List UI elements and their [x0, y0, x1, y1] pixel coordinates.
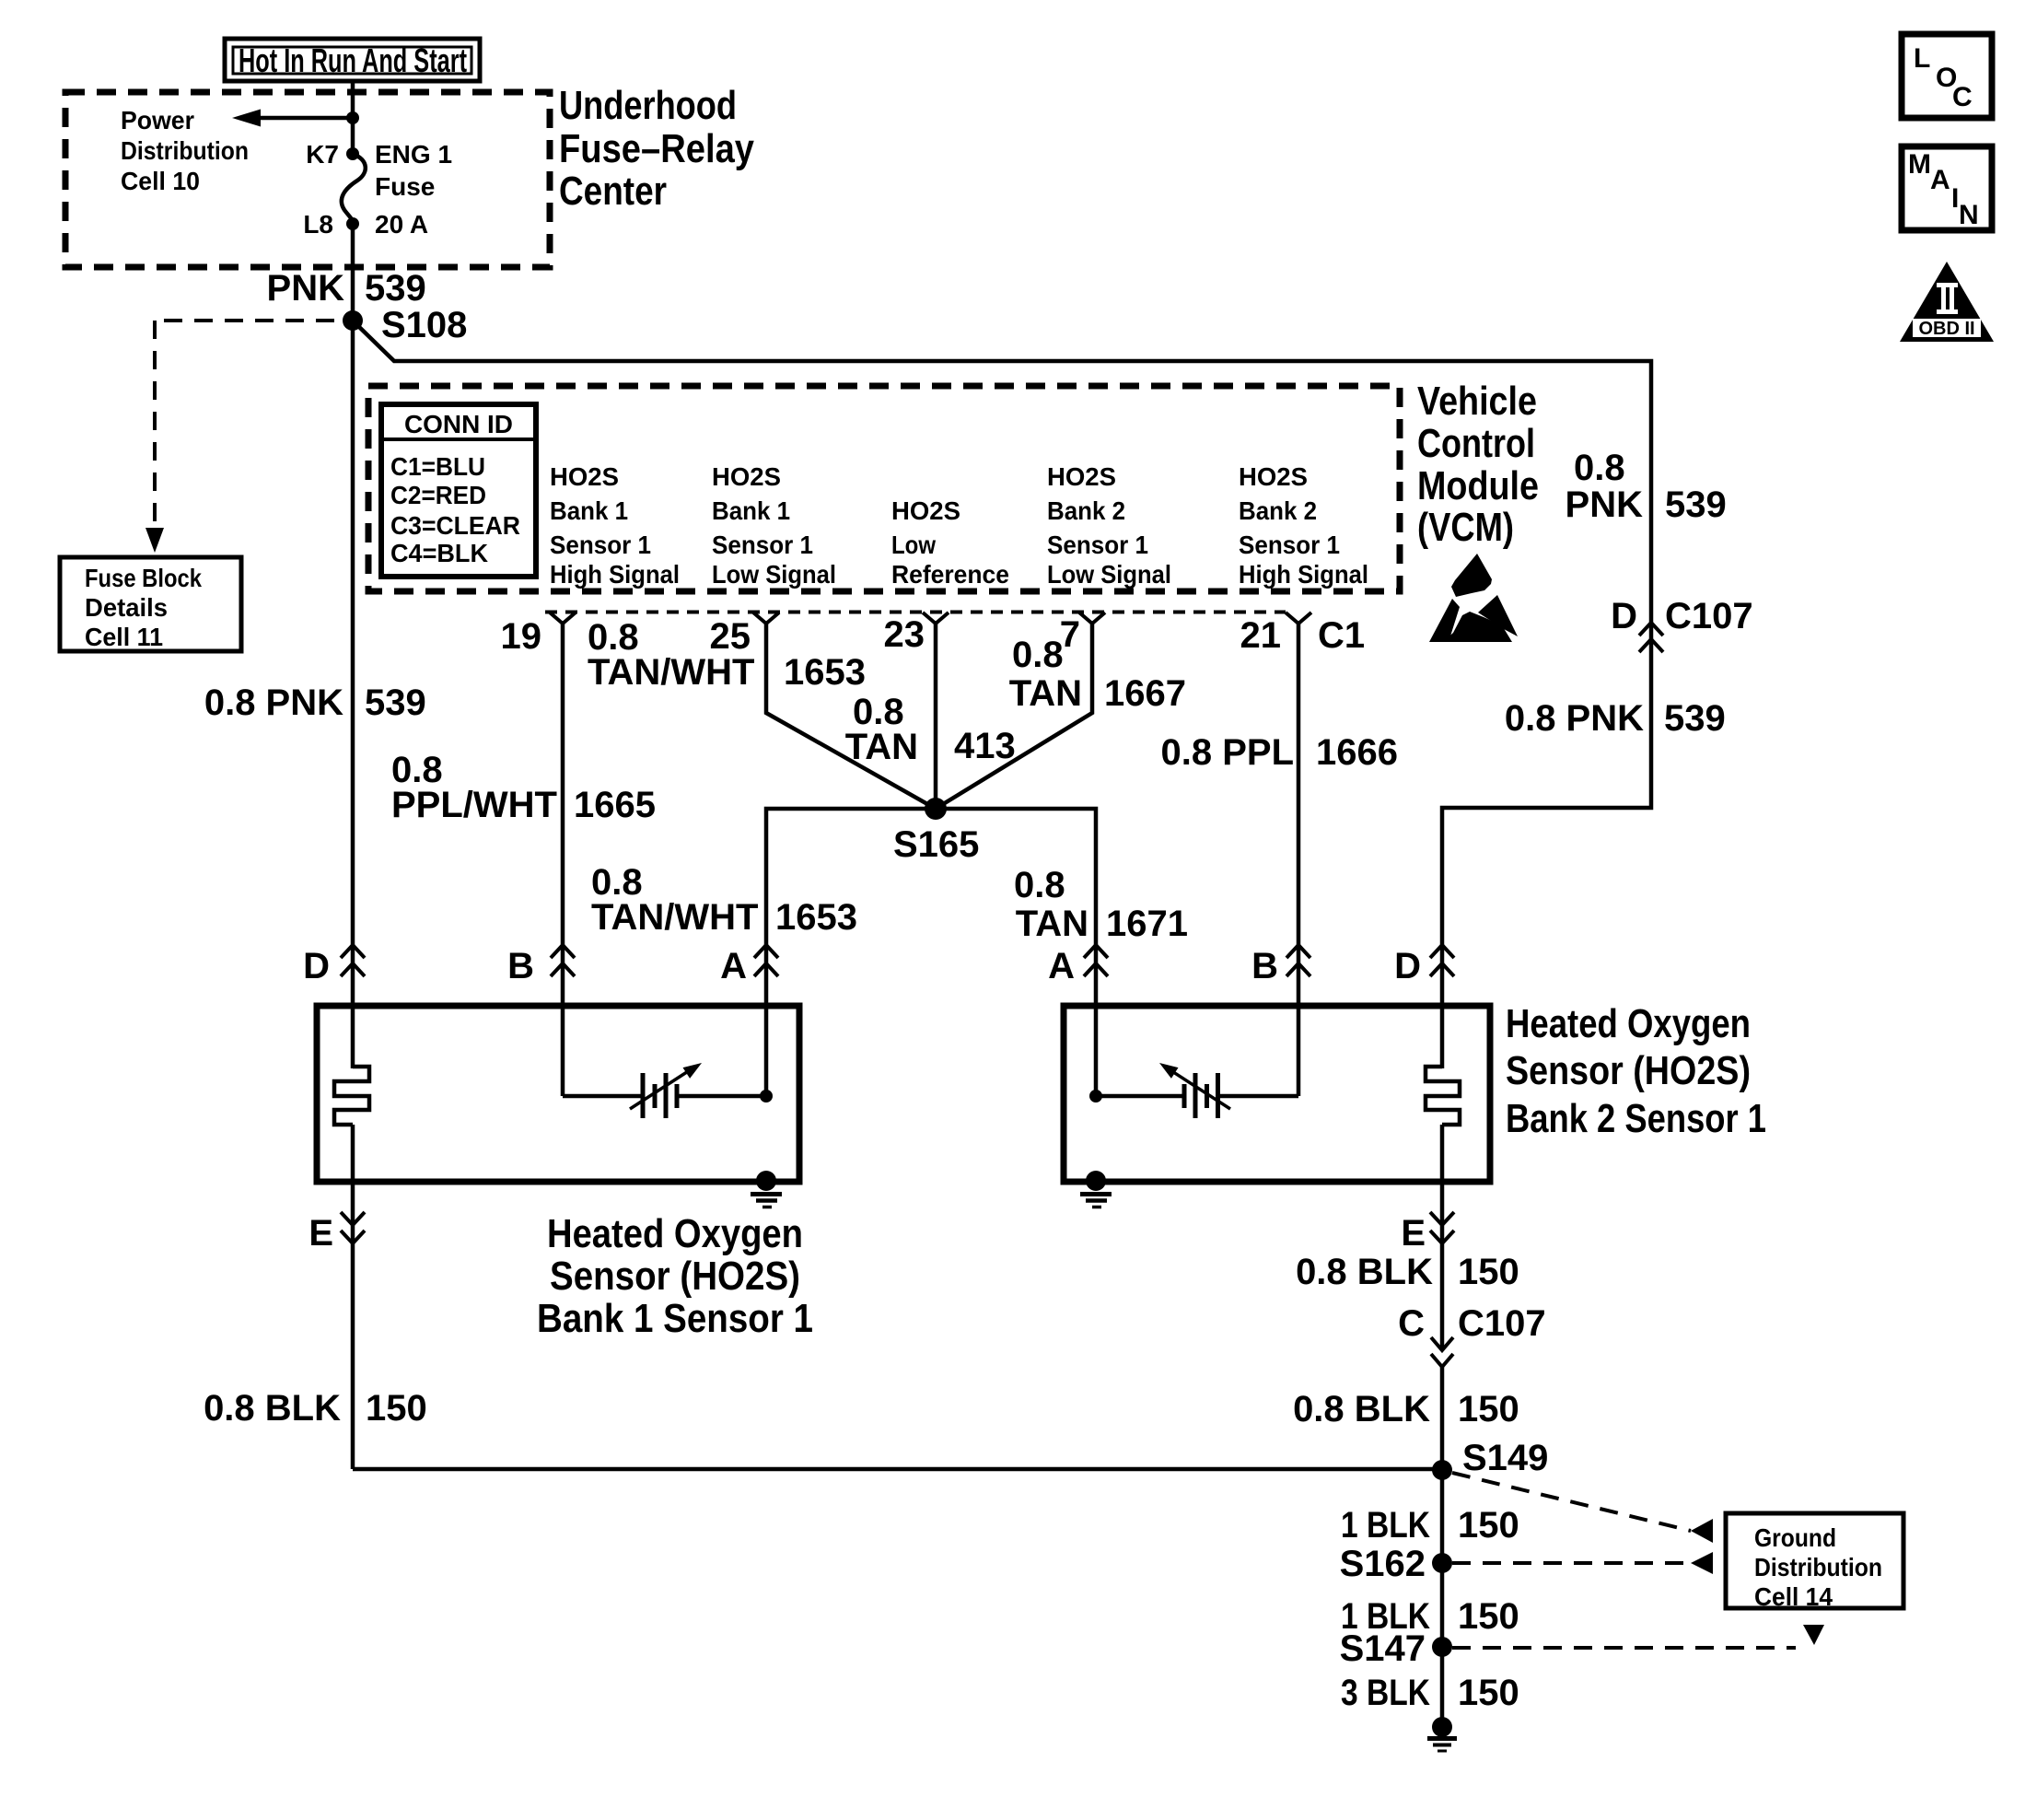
node: splice S149: [1432, 1460, 1452, 1480]
svg-text:Ground: Ground: [1754, 1523, 1836, 1552]
svg-text:1 BLK: 1 BLK: [1341, 1505, 1430, 1546]
svg-text:Distribution: Distribution: [1754, 1553, 1882, 1581]
label: HO2S Bank 1 Sensor 1 High Signal (pin 19 column): [550, 462, 680, 589]
connector chevrons pin A (right sensor): [1048, 945, 1108, 986]
label: Heated Oxygen Sensor (HO2S) Bank 2 Sensor 1: [1506, 1001, 1766, 1141]
label: Heated Oxygen Sensor (HO2S) Bank 1 Sensor 1: [537, 1211, 813, 1341]
svg-text:Sensor 1: Sensor 1: [550, 531, 651, 559]
svg-text:C2=RED: C2=RED: [390, 481, 486, 509]
connector chevrons pin A (left sensor): [720, 945, 778, 986]
svg-text:Low Signal: Low Signal: [1047, 560, 1171, 589]
label: Underhood Fuse-Relay Center: [559, 83, 754, 214]
label: Vehicle Control Module (VCM): [1417, 379, 1539, 550]
svg-text:0.8 PNK: 0.8 PNK: [204, 682, 343, 723]
node: splice S147: [1432, 1637, 1452, 1657]
svg-text:19: 19: [501, 616, 542, 657]
label: 0.8 BLK 150 (right upper): [1296, 1252, 1519, 1292]
svg-text:539: 539: [1664, 698, 1726, 739]
svg-text:HO2S: HO2S: [550, 462, 619, 491]
power source box "Hot In Run And Start": [225, 39, 480, 81]
wire: TAN/WHT 1653 pin 25 to S165: [766, 624, 936, 809]
svg-text:Heated Oxygen: Heated Oxygen: [1506, 1001, 1751, 1046]
svg-text:S165: S165: [893, 824, 979, 865]
svg-text:High Signal: High Signal: [550, 560, 680, 589]
ESD sensitivity symbol: [1429, 554, 1518, 642]
svg-text:Sensor 1: Sensor 1: [1047, 531, 1148, 559]
svg-text:E: E: [308, 1213, 333, 1254]
wire: dashed reference S162 to Ground Distribution: [1452, 1552, 1713, 1574]
svg-text:PNK: PNK: [1566, 484, 1644, 525]
heater element (left sensor): [334, 1067, 369, 1125]
label: 1 BLK 150 (upper): [1341, 1505, 1519, 1546]
svg-text:TAN: TAN: [1009, 673, 1082, 714]
svg-text:20 A: 20 A: [375, 210, 428, 239]
svg-text:Bank 2: Bank 2: [1239, 496, 1317, 525]
svg-text:539: 539: [365, 682, 426, 723]
svg-text:B: B: [507, 946, 534, 986]
svg-text:M: M: [1908, 149, 1931, 180]
svg-text:0.8 PPL: 0.8 PPL: [1160, 732, 1294, 773]
ground G: chassis ground at bottom: [1427, 1717, 1457, 1751]
svg-text:3 BLK: 3 BLK: [1341, 1673, 1430, 1713]
svg-text:C1: C1: [1318, 615, 1365, 656]
svg-text:1671: 1671: [1106, 904, 1188, 944]
svg-text:Underhood: Underhood: [559, 83, 737, 128]
connector chevrons pin E (left sensor, down): [308, 1212, 365, 1254]
node: element junction dot (left): [760, 1090, 773, 1102]
connector C107 pin C (inline, down): [1398, 1303, 1546, 1367]
svg-text:HO2S: HO2S: [712, 462, 781, 491]
svg-text:E: E: [1401, 1213, 1426, 1254]
svg-text:1653: 1653: [784, 652, 866, 693]
CONN ID table: [381, 404, 536, 577]
node: splice S108: [343, 310, 363, 331]
label: 0.8 TAN/WHT 1653 (lower): [591, 862, 857, 938]
svg-text:Bank 2 Sensor 1: Bank 2 Sensor 1: [1506, 1096, 1766, 1141]
heater element (right sensor): [1426, 1067, 1460, 1125]
svg-text:150: 150: [1458, 1505, 1519, 1546]
svg-text:S108: S108: [381, 305, 467, 345]
svg-text:Details: Details: [85, 593, 168, 622]
HO2S Bank 2 Sensor 1 box: [1064, 1006, 1490, 1182]
svg-text:0.8 BLK: 0.8 BLK: [1293, 1389, 1430, 1429]
wire: PPL/WHT 1665 pin 19 to sensor B: [561, 624, 565, 1096]
svg-text:Sensor (HO2S): Sensor (HO2S): [1506, 1048, 1751, 1093]
wire: PNK 539 from S108 down to HO2S Bank1 Sensor1 pin D: [351, 321, 355, 1068]
svg-text:D: D: [303, 946, 330, 986]
wire: TAN/WHT 1653 S165 to left sensor A: [766, 809, 936, 1096]
svg-text:Low: Low: [891, 531, 936, 559]
wire: dashed reference from S108 to Fuse Block Details: [145, 321, 334, 553]
svg-text:TAN/WHT: TAN/WHT: [588, 652, 754, 693]
svg-text:1665: 1665: [574, 785, 656, 825]
legend box MAIN: [1902, 146, 1992, 230]
svg-text:A: A: [1930, 165, 1950, 195]
reference box: Fuse Block Details Cell 11: [60, 557, 241, 651]
wire: TAN 1667 pin 7 to S165: [936, 624, 1092, 809]
node: branch junction dot: [346, 111, 359, 124]
wire: PPL 1666 pin 21 to sensor B: [1297, 624, 1301, 1096]
svg-text:413: 413: [954, 726, 1016, 766]
svg-text:S149: S149: [1462, 1438, 1548, 1478]
svg-text:TAN/WHT: TAN/WHT: [591, 897, 758, 938]
svg-text:21: 21: [1240, 615, 1282, 656]
wire: BLK 150 C107 to S149: [1440, 1367, 1445, 1470]
svg-text:Fuse: Fuse: [375, 172, 435, 201]
label: 0.8 PNK 539 (left): [204, 682, 426, 723]
svg-text:K7: K7: [306, 140, 339, 169]
svg-text:Reference: Reference: [891, 560, 1009, 589]
svg-text:C107: C107: [1458, 1303, 1546, 1344]
svg-text:Heated Oxygen: Heated Oxygen: [547, 1211, 803, 1256]
connector fork pin 25: [753, 612, 779, 624]
svg-text:C3=CLEAR: C3=CLEAR: [390, 511, 520, 540]
wire: heater output to E: [351, 1125, 355, 1469]
ground: left sensor internal ground: [751, 1171, 782, 1207]
connector chevrons pin B (left sensor): [507, 945, 575, 986]
connector fork pin 23: [923, 612, 949, 624]
svg-text:ENG 1: ENG 1: [375, 140, 452, 169]
svg-text:150: 150: [1458, 1673, 1519, 1713]
VCM connector dashed line: [545, 611, 1286, 614]
connector fork pin 21 (C1): [1286, 612, 1311, 624]
label: Power Distribution Cell 10: [121, 106, 249, 195]
connector fork pin 19: [550, 612, 576, 624]
svg-text:0.8: 0.8: [1012, 635, 1064, 675]
wire: BLK 150 bottom run from left sensor to S149: [353, 1467, 1442, 1472]
svg-text:0.8 PNK: 0.8 PNK: [1505, 698, 1644, 739]
label: 0.8 PNK 539 (lower right): [1505, 698, 1726, 739]
svg-text:150: 150: [1458, 1389, 1519, 1429]
svg-text:HO2S: HO2S: [1047, 462, 1116, 491]
svg-text:Hot In Run And Start: Hot In Run And Start: [239, 41, 467, 79]
svg-text:Center: Center: [559, 169, 667, 214]
svg-text:(VCM): (VCM): [1417, 505, 1514, 550]
sensing element (right sensor): [1096, 1063, 1298, 1118]
connector fork pin 7: [1079, 612, 1105, 624]
label: 1 BLK 150 (lower): [1341, 1596, 1519, 1637]
connector chevrons pin D (right sensor): [1394, 945, 1454, 986]
svg-text:23: 23: [884, 614, 925, 655]
svg-text:150: 150: [1458, 1252, 1519, 1292]
connector chevrons pin D (left sensor): [303, 945, 365, 986]
svg-text:Vehicle: Vehicle: [1417, 379, 1537, 424]
svg-text:Fuse Block: Fuse Block: [85, 564, 202, 592]
HO2S Bank 1 Sensor 1 box: [317, 1006, 799, 1182]
label: HO2S Bank 2 Sensor 1 Low Signal (pin 7 column): [1047, 462, 1171, 589]
svg-text:Low Signal: Low Signal: [712, 560, 836, 589]
svg-text:Bank 1 Sensor 1: Bank 1 Sensor 1: [537, 1296, 813, 1341]
label: HO2S Bank 2 Sensor 1 High Signal (pin 21 column): [1239, 462, 1368, 589]
label: HO2S Low Reference (pin 23 column): [891, 496, 1009, 589]
svg-text:D: D: [1611, 596, 1637, 636]
svg-text:0.8: 0.8: [1574, 448, 1625, 488]
svg-text:S162: S162: [1340, 1544, 1426, 1584]
svg-text:Bank 1: Bank 1: [550, 496, 628, 525]
svg-text:TAN: TAN: [1016, 904, 1088, 944]
wire: TAN 1671 S165 to right sensor A: [936, 809, 1096, 1096]
label: 0.8 BLK 150 (left): [204, 1388, 427, 1429]
svg-text:Bank 1: Bank 1: [712, 496, 790, 525]
svg-text:1667: 1667: [1104, 673, 1186, 714]
wire: dashed reference S149 to Ground Distribution: [1452, 1473, 1713, 1543]
svg-text:Bank 2: Bank 2: [1047, 496, 1125, 525]
svg-text:1653: 1653: [775, 897, 857, 938]
wire: BLK 150 ground chain: [1440, 1470, 1445, 1719]
svg-text:C: C: [1398, 1303, 1425, 1344]
wire: TAN 413 pin 23 to S165: [934, 624, 938, 809]
svg-text:CONN ID: CONN ID: [404, 410, 513, 438]
svg-text:Sensor (HO2S): Sensor (HO2S): [550, 1254, 800, 1299]
svg-text:0.8 BLK: 0.8 BLK: [204, 1388, 341, 1429]
svg-text:Module: Module: [1417, 463, 1539, 508]
label: ENG 1 Fuse 20 A: [375, 140, 452, 239]
label: PNK 539: [267, 268, 426, 309]
svg-text:PPL/WHT: PPL/WHT: [391, 785, 557, 825]
svg-text:OBD II: OBD II: [1918, 319, 1974, 339]
svg-text:Fuse–Relay: Fuse–Relay: [559, 126, 754, 171]
svg-text:L8: L8: [303, 210, 333, 239]
svg-text:C: C: [1952, 82, 1973, 112]
wire: PNK 539 from S108 to VCM area (diagonal + top run + right drop): [357, 325, 1651, 1068]
label: 3 BLK 150: [1341, 1673, 1519, 1713]
svg-text:S147: S147: [1340, 1628, 1426, 1669]
node: splice S162: [1432, 1553, 1452, 1573]
svg-text:25: 25: [710, 616, 751, 657]
svg-text:HO2S: HO2S: [891, 496, 960, 525]
label: HO2S Bank 1 Sensor 1 Low Signal (pin 25 column): [712, 462, 836, 589]
svg-text:Sensor 1: Sensor 1: [1239, 531, 1340, 559]
wire: branch to Power Distribution with arrow: [232, 110, 353, 127]
svg-text:1666: 1666: [1316, 732, 1398, 773]
label: 0.8 PPL 1666: [1160, 732, 1398, 773]
label: 0.8 TAN 1671: [1014, 865, 1188, 944]
svg-text:539: 539: [365, 268, 426, 309]
svg-text:High Signal: High Signal: [1239, 560, 1368, 589]
svg-text:PNK: PNK: [267, 268, 345, 309]
svg-text:C1=BLU: C1=BLU: [390, 452, 485, 481]
svg-text:L: L: [1914, 43, 1930, 74]
node: splice S165: [925, 798, 947, 820]
svg-text:HO2S: HO2S: [1239, 462, 1308, 491]
svg-text:Cell 11: Cell 11: [85, 623, 163, 651]
wire: dashed reference S147 from Ground Distribution: [1452, 1625, 1824, 1648]
label: 0.8 TAN/WHT 1653 (pin 25): [588, 617, 866, 693]
svg-text:Control: Control: [1417, 421, 1535, 466]
svg-text:N: N: [1959, 200, 1979, 230]
svg-text:150: 150: [1458, 1596, 1519, 1637]
connector chevrons pin B (right sensor): [1251, 945, 1310, 986]
wire: feed from Hot In Run And Start down to fuse: [351, 81, 355, 154]
wire: PNK 539 from fuse to S108: [351, 224, 355, 323]
svg-text:C4=BLK: C4=BLK: [390, 539, 488, 567]
svg-text:0.8 BLK: 0.8 BLK: [1296, 1252, 1433, 1292]
label: 0.8 PPL/WHT 1665: [391, 750, 656, 825]
reference box: Ground Distribution Cell 14: [1726, 1513, 1903, 1611]
svg-text:150: 150: [366, 1388, 427, 1429]
sensing element (left sensor): [563, 1063, 766, 1118]
svg-text:Power: Power: [121, 106, 194, 134]
svg-text:539: 539: [1665, 484, 1727, 525]
svg-text:TAN: TAN: [845, 727, 918, 767]
wire: BLK 150 right sensor E down to C107: [1440, 1125, 1445, 1350]
Vehicle Control Module dashed box: [368, 386, 1400, 591]
svg-text:B: B: [1251, 946, 1278, 986]
label: 0.8 PNK 539 (upper right): [1566, 448, 1727, 525]
connector chevrons pin E (right sensor, down): [1401, 1212, 1454, 1254]
node: element junction dot (right): [1089, 1090, 1102, 1102]
svg-text:A: A: [720, 946, 747, 986]
label: 0.8 BLK 150 (right lower): [1293, 1389, 1519, 1429]
connector C107 pin D (chevrons up): [1611, 596, 1753, 652]
ground: right sensor internal ground: [1080, 1171, 1112, 1207]
svg-text:A: A: [1048, 946, 1075, 986]
label: 0.8 TAN 1667 (pin 7): [1009, 635, 1186, 714]
svg-text:C107: C107: [1665, 596, 1753, 636]
svg-text:Sensor 1: Sensor 1: [712, 531, 813, 559]
label: 0.8 TAN 413: [845, 692, 1016, 767]
svg-text:D: D: [1394, 946, 1421, 986]
fuse ENG 1 20 A: [342, 147, 366, 230]
legend box LOC: [1902, 34, 1992, 118]
Underhood Fuse-Relay Center dashed box: [65, 92, 550, 267]
svg-text:Distribution: Distribution: [121, 136, 249, 165]
svg-text:Cell 10: Cell 10: [121, 167, 200, 195]
svg-text:Cell 14: Cell 14: [1754, 1582, 1833, 1611]
legend symbol OBD II triangle: [1900, 262, 1994, 342]
svg-text:0.8: 0.8: [1014, 865, 1065, 905]
